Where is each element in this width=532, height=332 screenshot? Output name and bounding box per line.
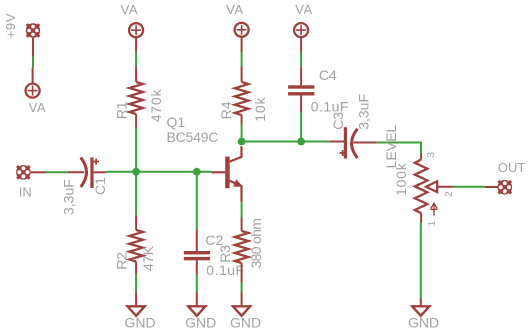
label GND R2: [124, 314, 155, 330]
svg-text:R4: R4: [218, 101, 234, 119]
junction collector: [238, 138, 246, 146]
wire wiper to OUT: [453, 186, 484, 188]
ground GND R3: [233, 293, 250, 316]
wire base net: [106, 171, 211, 173]
value 470k: [148, 89, 164, 123]
svg-text:BC549C: BC549C: [167, 129, 219, 145]
value 3,3uF C3: [356, 94, 372, 130]
resistor R1: [129, 67, 143, 128]
svg-text:R3: R3: [217, 245, 233, 263]
wire R4 to collector node: [241, 125, 243, 142]
label GND pot: [408, 314, 439, 330]
wire R2 to GND: [135, 274, 137, 291]
svg-text:1: 1: [427, 220, 438, 226]
pin 3 label: [426, 152, 437, 158]
wire IN to C1: [46, 171, 68, 173]
label VA above R1: [121, 2, 139, 17]
value 10k: [252, 97, 268, 122]
svg-text:GND: GND: [230, 314, 261, 330]
wire R3 to GND: [241, 283, 243, 293]
svg-text:100k: 100k: [393, 162, 409, 196]
wire R1 to base node: [135, 128, 137, 172]
svg-text:VA: VA: [29, 100, 47, 115]
value 100k: [393, 162, 409, 196]
wire VA to R4: [241, 52, 243, 67]
pin OUT pad: [485, 186, 498, 188]
label R2: [114, 252, 130, 270]
pin +9V pad: [32, 38, 34, 56]
label C1: [92, 177, 108, 195]
label C3: [330, 112, 346, 130]
label GND C2: [185, 314, 216, 330]
ground GND C2: [188, 292, 205, 316]
wire +9V to VA: [32, 56, 34, 68]
pad IN: [16, 165, 31, 180]
pin 1 label: [427, 220, 438, 226]
wire C2 to GND: [196, 274, 198, 292]
wire emitter to R3: [241, 202, 243, 218]
svg-text:VA: VA: [295, 2, 313, 17]
svg-text:Q1: Q1: [167, 114, 186, 130]
value 47K: [140, 245, 156, 271]
svg-text:+9V: +9V: [3, 13, 18, 39]
svg-text:3: 3: [426, 152, 437, 158]
svg-text:R1: R1: [114, 101, 130, 119]
label VA above C4: [295, 2, 313, 17]
svg-text:OUT: OUT: [498, 160, 526, 175]
wire VA to C4: [300, 52, 302, 67]
junction C4: [297, 138, 305, 146]
label R4: [218, 101, 234, 119]
svg-text:2: 2: [444, 191, 455, 197]
wire pot to GND: [420, 223, 422, 298]
ground GND pot: [412, 298, 429, 316]
label LEVEL: [383, 125, 399, 169]
label +9V: [3, 13, 18, 39]
svg-text:VA: VA: [121, 2, 139, 17]
resistor R3: [235, 217, 249, 282]
junction base-C2: [193, 168, 201, 176]
supply VA above R4: [235, 23, 249, 52]
svg-text:C1: C1: [92, 177, 108, 195]
pad OUT: [498, 180, 513, 195]
ground GND R2: [128, 292, 145, 316]
svg-text:0.1uF: 0.1uF: [206, 262, 244, 278]
wire C4 to rail: [300, 112, 302, 142]
svg-text:GND: GND: [124, 314, 155, 330]
svg-text:380 ohm: 380 ohm: [248, 219, 264, 269]
supply VA above R1: [129, 23, 143, 51]
label Q1: [167, 114, 186, 130]
svg-text:GND: GND: [185, 314, 216, 330]
svg-text:470k: 470k: [148, 89, 164, 123]
capacitor C4: [288, 67, 314, 112]
svg-text:R2: R2: [114, 252, 130, 270]
label IN: [19, 185, 32, 200]
svg-text:10k: 10k: [252, 97, 268, 122]
value 3,3uF C1: [61, 179, 77, 215]
junction base-R1: [132, 168, 140, 176]
capacitor C1: [68, 157, 107, 188]
wire node to R2: [135, 172, 137, 216]
label GND R3: [230, 314, 261, 330]
svg-text:IN: IN: [19, 185, 32, 200]
wire collector rail: [242, 141, 330, 143]
value BC549C: [167, 129, 219, 145]
supply VA top-left: [26, 68, 40, 98]
resistor R4: [235, 67, 249, 125]
potentiometer LEVEL: [415, 154, 454, 223]
svg-text:C4: C4: [319, 67, 337, 83]
wire node to C2: [196, 172, 198, 230]
resistor R2: [129, 216, 143, 275]
supply VA above C4: [294, 23, 308, 52]
wire VA to R1: [135, 52, 137, 67]
pin IN pad: [31, 171, 46, 173]
svg-text:C3: C3: [330, 112, 346, 130]
pin 2 label: [444, 191, 455, 197]
label C2: [205, 232, 223, 248]
wire C3 to pot: [377, 143, 421, 154]
capacitor C3: [329, 127, 377, 158]
label VA top-left: [29, 100, 47, 115]
svg-text:3,3uF: 3,3uF: [61, 179, 77, 215]
svg-text:47K: 47K: [140, 245, 156, 271]
transistor Q1: [212, 146, 243, 201]
svg-text:VA: VA: [226, 2, 244, 17]
value 0.1uF C2: [206, 262, 244, 278]
label R3: [217, 245, 233, 263]
label VA above R4: [226, 2, 244, 17]
label OUT: [498, 160, 526, 175]
svg-text:LEVEL: LEVEL: [383, 125, 399, 169]
svg-text:GND: GND: [408, 314, 439, 330]
capacitor C2: [184, 230, 210, 274]
label R1: [114, 101, 130, 119]
label C4: [319, 67, 337, 83]
value 380 ohm: [248, 219, 264, 269]
svg-text:3,3uF: 3,3uF: [356, 94, 372, 130]
value 0.1uF C4: [311, 99, 349, 115]
pad +9V: [26, 23, 40, 37]
